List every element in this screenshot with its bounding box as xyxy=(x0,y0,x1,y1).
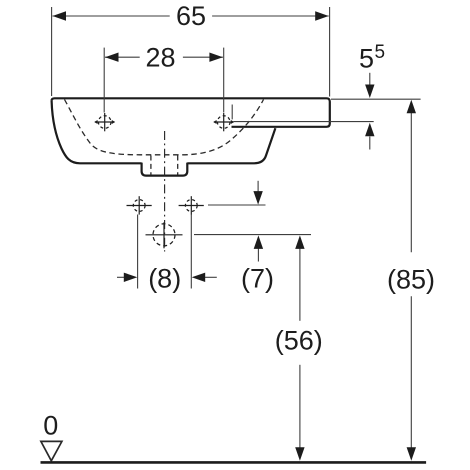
dimension (8): left arrow (pointing right) xyxy=(117,276,126,278)
dimension 65: line left segment xyxy=(53,15,170,17)
svg-text:(56): (56) xyxy=(275,325,323,355)
dimension (7): lower arrow (up) xyxy=(257,249,259,262)
svg-text:(7): (7) xyxy=(241,263,274,293)
dimension (8): extension line left xyxy=(137,215,139,289)
dimension 65: extension line left xyxy=(51,7,53,96)
dimension (7): reference line at mounting holes xyxy=(208,204,266,206)
dimension 28: right arrowhead xyxy=(209,53,223,62)
dimension (85): bottom arrowhead xyxy=(407,447,416,461)
basin outer outline: top edge, right edge, shelf underside xyxy=(55,98,330,127)
dimension 65: line right segment xyxy=(212,15,329,17)
dimension (56): bottom arrowhead xyxy=(295,447,304,461)
dimension 28: line right segment xyxy=(183,56,223,58)
basin bowl silhouette: left edge, bottom, right slope xyxy=(52,98,276,163)
svg-text:0: 0 xyxy=(43,411,58,441)
floor line xyxy=(41,461,427,464)
dimension (56): top arrowhead xyxy=(295,235,304,249)
svg-text:65: 65 xyxy=(176,1,206,31)
dimension 5.5: lower arrow (up) xyxy=(369,137,371,150)
vertical centerline (dash-dot) through drain xyxy=(164,131,166,252)
datum triangle xyxy=(41,441,62,460)
drain hole hidden edges (dashed) xyxy=(150,156,152,176)
drain trap tab below bowl xyxy=(142,163,188,176)
drain outlet circle (dashed) with crosshair xyxy=(146,222,183,248)
mounting hole left xyxy=(127,196,152,214)
dimension 5.5: upper arrow (down) xyxy=(369,73,371,86)
dimension 28: left arrowhead xyxy=(105,53,119,62)
svg-text:(8): (8) xyxy=(148,263,181,293)
shelf front edge tick xyxy=(231,105,233,120)
dimension (85): vertical line with arrows xyxy=(410,112,412,252)
svg-text:28: 28 xyxy=(145,42,175,72)
dimension 65: extension line right xyxy=(329,7,331,97)
inner bowl rim (dashed hidden line) xyxy=(65,100,264,155)
dimension 65: left arrowhead xyxy=(53,11,67,20)
faucet hole right xyxy=(213,113,234,131)
svg-text:(85): (85) xyxy=(387,264,435,294)
dimension (8): extension line right xyxy=(190,215,192,289)
svg-text:5: 5 xyxy=(359,44,374,74)
dimension 28: extension line right xyxy=(223,48,225,113)
svg-text:5: 5 xyxy=(375,42,386,63)
faucet hole left xyxy=(94,113,115,131)
dimension (8): right arrow (pointing left) xyxy=(205,276,217,278)
dimension 65: right arrowhead xyxy=(315,11,329,20)
dimension (7): upper arrow (down) xyxy=(257,181,259,193)
mounting hole right xyxy=(179,196,204,214)
dimension 28: line left segment xyxy=(105,56,140,58)
dimension (56): reference line at drain level xyxy=(194,234,311,236)
dimension 28: extension line left xyxy=(103,48,105,113)
dimension 5.5: top reference line xyxy=(331,98,421,100)
dimension 5.5: bottom reference line xyxy=(234,121,374,123)
dimension (56): vertical line with arrows xyxy=(299,248,301,321)
dimension (85): top arrowhead xyxy=(407,100,416,114)
